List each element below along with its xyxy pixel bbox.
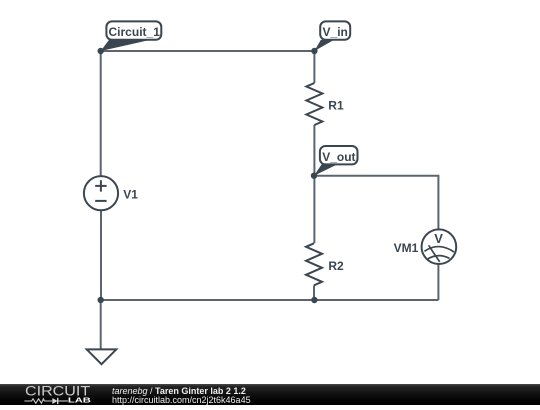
svg-text:V: V — [434, 231, 443, 246]
svg-text:R2: R2 — [328, 259, 344, 273]
svg-text:LAB: LAB — [68, 398, 91, 405]
svg-text:CIRCUIT: CIRCUIT — [25, 384, 90, 398]
svg-text:R1: R1 — [328, 99, 344, 113]
svg-text:VM1: VM1 — [394, 241, 419, 255]
svg-text:V1: V1 — [123, 188, 138, 202]
svg-text:V_in: V_in — [323, 25, 348, 39]
svg-text:V_out: V_out — [322, 150, 355, 164]
svg-text:Circuit_1: Circuit_1 — [109, 25, 161, 39]
